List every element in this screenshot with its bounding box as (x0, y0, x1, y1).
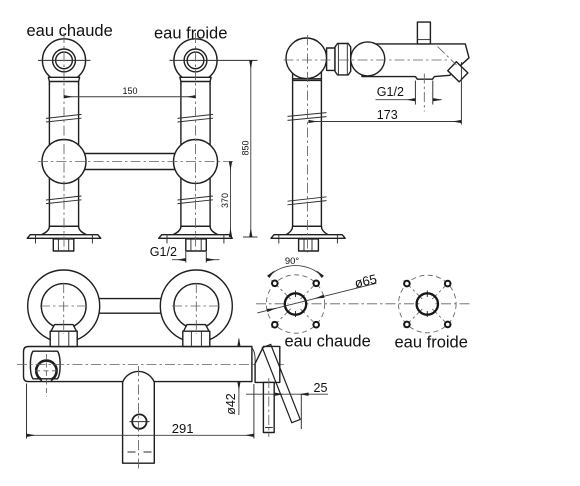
holder C-ring (36, 361, 56, 380)
90 degree arc (268, 266, 322, 277)
hot pattern center hole (285, 293, 306, 314)
svg-text:291: 291 (172, 421, 194, 436)
drop centerline (138, 366, 140, 470)
svg-text:eau froide: eau froide (395, 334, 468, 352)
diverter knob on top (417, 22, 430, 44)
svg-text:150: 150 (122, 86, 137, 96)
angled spout tip (448, 62, 468, 82)
long horizontal centerline (256, 303, 470, 305)
outlet centerline (423, 74, 425, 112)
o65 leader line (257, 283, 376, 313)
sphere joint column 2 (174, 140, 218, 184)
ring 1 inner (41, 284, 86, 329)
flare base (side view) (286, 226, 328, 234)
flare base column 1 (42, 226, 87, 234)
svg-text:173: 173 (377, 108, 398, 122)
lever handle (262, 344, 300, 422)
second sphere (side view) (351, 42, 385, 76)
column 2 (cold) body (181, 72, 210, 227)
outlet extension lines (415, 81, 432, 105)
flare base column 2 (173, 226, 218, 234)
svg-text:eau chaude: eau chaude (27, 22, 113, 40)
drop hole circle (132, 414, 146, 428)
drop thread dashes (128, 451, 152, 453)
G1/2 thread block column 2 (186, 239, 207, 251)
flange ticks column 2 (167, 234, 224, 244)
centerline column 2 (195, 33, 197, 253)
flange ticks column 1 (36, 234, 93, 244)
dimension 173 (460, 62, 462, 125)
dimension 150 (64, 96, 196, 98)
center outlet drop (123, 371, 155, 463)
svg-text:25: 25 (314, 381, 328, 395)
centerline column 1 (63, 33, 65, 253)
svg-text:850: 850 (240, 140, 250, 155)
knob 2 horizontal crosshair / 850 top extension (170, 59, 258, 61)
svg-text:90°: 90° (285, 256, 300, 267)
knob 1 horizontal crosshair (38, 59, 91, 61)
dimension 291 (27, 384, 254, 439)
cold pattern bolt circle (399, 275, 457, 333)
knob circle column 2 (174, 39, 217, 82)
ring 1 outer (28, 270, 100, 342)
hot pattern vertical crosshair (295, 291, 297, 319)
ring 1 crosshair (40, 283, 88, 334)
svg-text:G1/2: G1/2 (150, 245, 177, 259)
dimension G1/2 (column 2 thread) (186, 252, 207, 263)
connector centerline (268, 378, 270, 437)
break marks column 1 lower (46, 196, 82, 204)
break marks side column upper (288, 113, 327, 121)
dimension 25 (246, 393, 328, 395)
svg-text:ø42: ø42 (224, 393, 238, 415)
hex nut (side view) (335, 44, 351, 75)
centerline side column (307, 35, 309, 253)
spout axis centerline (438, 47, 457, 66)
svg-text:370: 370 (220, 193, 230, 208)
dimension 370 (230, 162, 232, 238)
horizontal centerline through spheres (38, 161, 234, 163)
dimension 850 (243, 236, 258, 238)
shower hose connector cylinder (263, 382, 274, 432)
valve end cap (255, 346, 280, 382)
bracket crosshair (35, 354, 58, 397)
hot pattern bolt circle (266, 275, 324, 333)
svg-text:G1/2: G1/2 (377, 85, 404, 99)
shower holder bracket (30, 351, 60, 379)
break marks column 1 upper (46, 114, 82, 122)
cold pattern bolt holes (404, 281, 410, 287)
knob circle column 1 (42, 39, 85, 82)
spout body (362, 44, 469, 79)
svg-text:eau chaude: eau chaude (285, 333, 371, 351)
hot pattern diagonal centerlines (272, 280, 320, 328)
hot pattern bolt holes (272, 281, 278, 287)
G1/2 thread block column 1 (53, 239, 74, 251)
flange plate column 2 (159, 235, 233, 239)
break marks side column lower (288, 197, 327, 205)
mixer body (24, 347, 252, 382)
cold pattern diagonal centerlines (404, 280, 451, 327)
column (side view) (293, 72, 322, 227)
connecting bar between spheres (80, 154, 180, 170)
bar between rings (97, 299, 164, 314)
end cap corner curve (252, 348, 255, 364)
column 1 (hot) body (49, 72, 78, 227)
flange plate column 1 (27, 235, 101, 239)
flange plate (side view) (271, 235, 345, 239)
neck between sphere and nut (327, 48, 335, 70)
cold pattern vertical crosshair (426, 291, 428, 319)
dimension o42 (238, 339, 240, 347)
cold pattern center hole (417, 293, 438, 314)
horizontal centerline side view (284, 59, 448, 61)
hex nut under ring 1 (51, 325, 77, 332)
dimension G1/2 (outlet) (376, 99, 416, 101)
flange ticks (side view) (279, 234, 338, 244)
hex nut under ring 2 (184, 325, 210, 332)
body centerline (17, 364, 284, 366)
top sphere (side view) (286, 38, 327, 79)
break marks column 2 lower (178, 196, 214, 204)
ring 2 crosshair (172, 283, 221, 334)
sphere joint column 1 (42, 140, 86, 184)
ring 2 outer (160, 270, 232, 342)
G1/2 thread block (side view) (299, 239, 319, 251)
ring 2 inner (174, 284, 219, 329)
break marks column 2 upper (178, 114, 214, 122)
